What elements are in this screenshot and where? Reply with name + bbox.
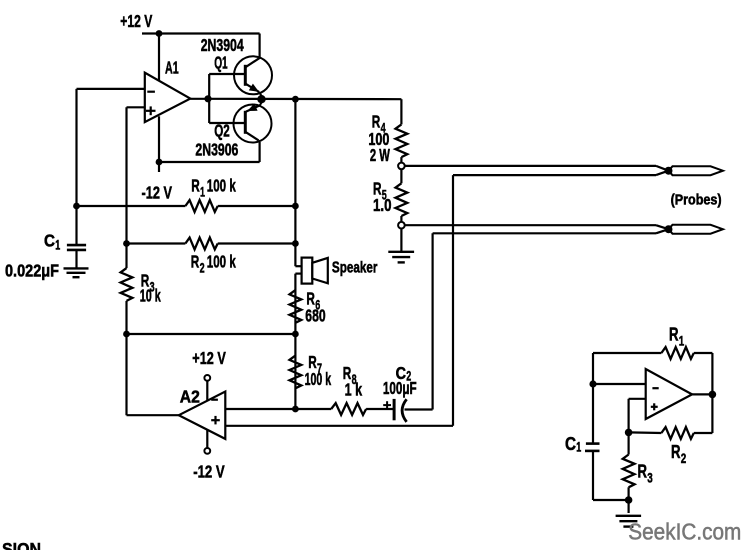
svg-text:-12 V: -12 V: [193, 461, 225, 481]
svg-text:1: 1: [200, 184, 205, 200]
svg-text:SION: SION: [2, 539, 41, 550]
svg-text:10 k: 10 k: [140, 286, 161, 306]
svg-text:R: R: [191, 252, 200, 272]
svg-text:+12 V: +12 V: [192, 348, 226, 368]
svg-text:Speaker: Speaker: [332, 260, 378, 277]
svg-text:2N3906: 2N3906: [195, 140, 238, 160]
svg-text:2: 2: [200, 260, 205, 276]
svg-text:Q1: Q1: [214, 53, 228, 73]
svg-text:100 k: 100 k: [305, 369, 332, 389]
svg-text:0.022μF: 0.022μF: [5, 260, 59, 280]
svg-text:1.0: 1.0: [373, 195, 392, 215]
svg-text:100μF: 100μF: [383, 378, 417, 398]
svg-text:3: 3: [647, 470, 653, 486]
svg-text:C: C: [565, 434, 576, 454]
svg-text:(Probes): (Probes): [671, 193, 722, 209]
svg-text:1 k: 1 k: [345, 380, 363, 400]
svg-text:Q2: Q2: [214, 120, 230, 140]
svg-text:R: R: [191, 176, 200, 196]
svg-text:R: R: [638, 462, 648, 482]
svg-text:1: 1: [679, 332, 685, 348]
svg-text:1: 1: [576, 439, 581, 455]
svg-text:C: C: [44, 230, 55, 250]
svg-text:SeekIC.com: SeekIC.com: [628, 518, 741, 544]
svg-text:R: R: [671, 442, 681, 462]
svg-text:100 k: 100 k: [207, 176, 236, 196]
svg-text:100 k: 100 k: [207, 252, 236, 272]
svg-text:R: R: [669, 324, 679, 344]
svg-text:2 W: 2 W: [370, 145, 390, 165]
svg-text:+12 V: +12 V: [120, 11, 152, 31]
svg-text:2: 2: [681, 450, 687, 466]
svg-text:-12 V: -12 V: [142, 183, 173, 203]
svg-text:1: 1: [55, 237, 60, 253]
svg-text:A2: A2: [180, 386, 200, 406]
svg-text:680: 680: [305, 306, 325, 326]
svg-text:A1: A1: [165, 58, 179, 78]
